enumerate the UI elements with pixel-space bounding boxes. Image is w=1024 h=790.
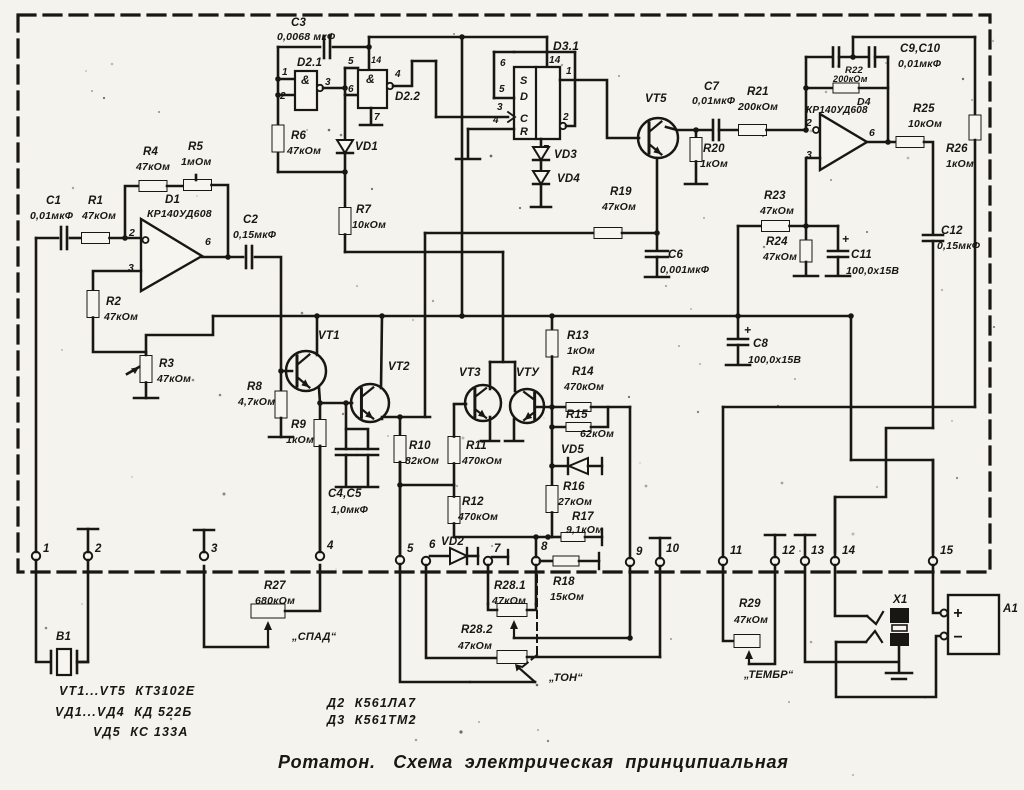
chassis bar above t13 (795, 534, 815, 537)
svg-text:R9: R9 (291, 419, 307, 431)
wire pin2 wire (566, 52, 575, 126)
wire R5 to output node (212, 185, 229, 257)
wire C12 staircase (835, 428, 933, 552)
svg-text:Д3 К561ТМ2: Д3 К561ТМ2 (326, 713, 417, 727)
wire VT4 emitter down (513, 419, 516, 440)
svg-text:1: 1 (43, 543, 50, 555)
junction node gate link (342, 85, 348, 91)
R29 wiper arrow (748, 656, 750, 664)
svg-text:47кОм: 47кОм (457, 640, 492, 652)
svg-text:VT1: VT1 (318, 330, 340, 342)
resistor R7 (339, 208, 351, 235)
op-amp D1 (141, 219, 202, 291)
svg-text:10кОм: 10кОм (352, 219, 386, 231)
wire C6 top lead (656, 233, 659, 249)
wire R19 to VT5 emitter (622, 232, 657, 235)
svg-text:1мОм: 1мОм (181, 156, 212, 168)
wire op-amp output to C2 (202, 256, 243, 259)
wire main horizontal bus (213, 315, 851, 318)
potentiometer R28.1 (497, 604, 527, 617)
svg-text:0,01мкФ: 0,01мкФ (898, 58, 942, 70)
wire terminal9 upper (629, 407, 632, 558)
R17 end bar (601, 529, 603, 545)
junction node R14 (549, 404, 555, 410)
resistor R24 (800, 240, 812, 262)
diode VD3 (533, 147, 549, 160)
svg-text:C: C (520, 113, 529, 125)
svg-text:8: 8 (541, 541, 548, 553)
junction node bus/R13 (549, 313, 555, 319)
wire R18 right lead (579, 560, 599, 563)
svg-text:R19: R19 (610, 186, 632, 198)
svg-text:47кОм: 47кОм (156, 373, 191, 385)
wire terminal2 stub (87, 529, 90, 552)
svg-text:14: 14 (371, 55, 381, 65)
wire to C7 (696, 129, 711, 132)
wire pin6-5 bracket (493, 52, 496, 98)
potentiometer R27 (251, 604, 285, 618)
C4 end bar (336, 486, 356, 489)
svg-text:47кОм: 47кОм (103, 311, 138, 323)
svg-text:2: 2 (94, 543, 102, 555)
diode VD1 (337, 140, 353, 153)
wire R input wire (468, 128, 514, 131)
svg-text:R: R (520, 126, 528, 138)
terminal 15 (929, 557, 937, 565)
transistor VT4 (510, 389, 544, 423)
wire R9 to terminal 4 (319, 446, 322, 552)
junction node D4 inverting (803, 127, 809, 133)
wire D3.1 pin14 riser (546, 37, 549, 67)
wire terminal3 stub (203, 530, 206, 552)
wire R10-R11 link (400, 484, 454, 487)
svg-text:47кОм: 47кОм (601, 201, 636, 213)
svg-text:6: 6 (869, 127, 875, 139)
junction node VD1/R6 (342, 169, 348, 175)
wire R29 wiper to t12 (749, 565, 775, 664)
wire C input riser (435, 61, 438, 117)
svg-text:R17: R17 (572, 511, 594, 523)
svg-text:6: 6 (429, 539, 436, 551)
terminal 2 (84, 552, 92, 560)
wire vertical from R19 line (424, 233, 427, 417)
wire pin3 to R2 (93, 271, 141, 291)
svg-text:C11: C11 (851, 249, 872, 261)
svg-text:&: & (301, 73, 310, 87)
wire C4 bottom lead (345, 455, 348, 486)
resistor R22 (833, 83, 859, 93)
svg-text:S: S (520, 75, 528, 87)
wire R28.1 left lead (488, 604, 497, 610)
wire C11 bottom lead (837, 257, 840, 275)
junction node C4 tap (343, 400, 349, 406)
svg-text:R4: R4 (143, 146, 159, 158)
capacitor C12 (923, 234, 943, 237)
terminal 10 (656, 558, 664, 566)
svg-text:+: + (842, 232, 849, 246)
resistor R17 (561, 533, 585, 542)
chassis bar above t12 (765, 534, 785, 537)
terminal 7 (484, 557, 492, 565)
resistor R13 (546, 330, 558, 357)
svg-text:„СПАД“: „СПАД“ (291, 631, 337, 643)
svg-text:R23: R23 (764, 190, 786, 202)
wire C6 bottom lead (656, 257, 659, 276)
R28.1 wiper arrow (513, 626, 515, 638)
svg-text:7: 7 (494, 543, 501, 555)
wire R input down (467, 129, 470, 157)
svg-text:C9,C10: C9,C10 (900, 43, 941, 55)
wire R22 right lead (859, 87, 888, 90)
svg-text:6: 6 (348, 84, 354, 95)
junction node emitter/R10 (397, 414, 403, 420)
wire R1 to op-amp pin 2 (110, 237, 143, 240)
junction node t9/wiper (627, 635, 633, 641)
svg-text:VT5: VT5 (645, 93, 667, 105)
wire R12-R16 line (454, 536, 548, 539)
wire VD2 lead (467, 555, 478, 558)
VT4 emitter bar (505, 440, 523, 443)
wire terminal10 down (659, 566, 662, 657)
wire R21 to D4 pin2 (767, 129, 807, 132)
svg-text:27кОм: 27кОм (557, 496, 592, 508)
R28.2 wiper arrow (518, 667, 535, 682)
resistor R11 (448, 437, 460, 464)
terminal 14 (831, 557, 839, 565)
svg-text:470кОм: 470кОм (457, 511, 498, 523)
C8 end bar (726, 364, 750, 367)
junction node R20 top (693, 127, 699, 133)
svg-text:R28.2: R28.2 (461, 624, 493, 636)
svg-text:D1: D1 (165, 194, 180, 206)
C6 end bar (645, 276, 669, 279)
svg-text:6: 6 (500, 58, 506, 69)
wire terminal1 wire down (36, 560, 49, 662)
svg-text:47кОм: 47кОм (759, 205, 794, 217)
wire long vertical to bus (461, 37, 464, 316)
svg-text:12: 12 (782, 545, 796, 557)
svg-text:7: 7 (374, 112, 380, 123)
wire R22 left lead (806, 87, 833, 90)
clock edge mark (508, 112, 515, 122)
wire VT1 collector to bus (316, 316, 319, 355)
svg-text:4,7кОм: 4,7кОм (237, 396, 275, 408)
A1 plus contact (941, 610, 948, 617)
VD5 end bar (601, 458, 603, 474)
svg-text:R27: R27 (264, 580, 286, 592)
svg-text:R8: R8 (247, 381, 263, 393)
capacitor C8 (728, 338, 748, 341)
ground under R24 (794, 275, 818, 278)
resistor R23 (762, 221, 790, 232)
svg-text:R28.1: R28.1 (494, 580, 526, 592)
svg-text:VД1...VД4 КД 522Б: VД1...VД4 КД 522Б (55, 705, 193, 719)
terminal 12 (771, 557, 779, 565)
svg-text:47кОм: 47кОм (286, 145, 321, 157)
jack contact lower (866, 631, 882, 642)
svg-text:2: 2 (562, 112, 569, 123)
wire D2.1 pin1 wire (278, 78, 295, 81)
wire R11 base riser (453, 405, 456, 437)
wire D2.2 pin4 wire (393, 61, 412, 86)
svg-text:200кОм: 200кОм (832, 74, 868, 84)
wire VT5 collector wire (666, 127, 694, 130)
wire feedback up leg (125, 186, 140, 238)
junction node t8 riser (533, 534, 539, 540)
wire terminal15 upper (932, 460, 935, 557)
svg-text:5: 5 (407, 543, 414, 555)
svg-text:0,01мкФ: 0,01мкФ (692, 95, 736, 107)
svg-text:D: D (520, 91, 528, 103)
wire bracket to R7 line (502, 252, 505, 362)
wire pin6-5 bracket top (494, 51, 514, 54)
wire R23 left lead (738, 225, 762, 228)
wire terminal5 down (400, 564, 535, 682)
wire input from terminal 1 to C1 (36, 237, 58, 240)
wire terminal14 down (835, 565, 867, 616)
resistor R8 (275, 391, 287, 418)
wire D4 pin3 leg (806, 158, 820, 226)
wire C12 bottom leg (932, 241, 935, 428)
wire R3 to ground (145, 383, 148, 399)
wire R17 right lead (585, 536, 602, 539)
resistor R26 (969, 115, 981, 140)
wire C4/C5 top leads (346, 403, 368, 449)
wire R28.1 right lead (527, 604, 536, 610)
wire left gate column (277, 47, 280, 126)
R27 wiper arrow (267, 627, 269, 647)
wire t15 jog (851, 460, 933, 552)
wire C7 to R21 (719, 129, 739, 132)
svg-text:R26: R26 (946, 143, 968, 155)
wire terminal5 upper (399, 462, 402, 556)
wire R11 top to VT3 base (453, 464, 456, 486)
svg-text:470кОм: 470кОм (461, 455, 502, 467)
wire R13 bottom chain (551, 357, 554, 487)
wire VD4 bottom (540, 184, 543, 206)
svg-text:C6: C6 (668, 249, 684, 261)
resistor R19 (594, 228, 622, 239)
wire B1 right lead (77, 661, 88, 664)
svg-text:R12: R12 (462, 496, 484, 508)
svg-text:R25: R25 (913, 103, 935, 115)
junction node emitter/R19 (654, 230, 660, 236)
wire C5 bottom lead (367, 455, 370, 486)
resistor R6 (272, 125, 284, 152)
ground under R8 (269, 436, 293, 439)
junction node output (885, 139, 891, 145)
wire comp to R26 (974, 37, 977, 115)
wire D2.2 pin5 wire (345, 67, 358, 70)
wire R25 to C12 (924, 142, 933, 233)
svg-text:„ТЕМБР“: „ТЕМБР“ (743, 669, 794, 681)
wire D2.2 pin7 down (370, 108, 373, 124)
svg-text:3: 3 (211, 543, 218, 555)
svg-text:3: 3 (325, 77, 331, 88)
svg-text:+: + (744, 323, 751, 337)
svg-text:R1: R1 (88, 195, 103, 207)
svg-text:R15: R15 (566, 409, 588, 421)
R18 end bar (598, 553, 600, 569)
svg-text:14: 14 (842, 545, 856, 557)
svg-text:R13: R13 (567, 330, 589, 342)
resistor R10 (394, 436, 406, 463)
wire R16 bottom (551, 513, 554, 538)
junction node VT1emitter/VT2base (317, 400, 323, 406)
wire jack sleeve (898, 646, 901, 672)
wire terminal15 down (933, 565, 940, 613)
wire pin1 wire (560, 80, 639, 138)
wire R9 top (319, 403, 322, 421)
potentiometer R29 (734, 635, 760, 648)
svg-text:1кОм: 1кОм (567, 345, 595, 357)
resistor R9 (314, 420, 326, 447)
capacitor C10 (868, 48, 871, 67)
chassis bar above t3 (194, 529, 214, 532)
svg-text:14: 14 (549, 55, 561, 66)
transistor VT5 (638, 118, 678, 158)
VT3 emitter bar (481, 440, 499, 443)
svg-text:47кОм: 47кОм (135, 161, 170, 173)
wire terminal8 right (540, 560, 552, 563)
wire VT2 collector to bus (381, 316, 382, 388)
wire VT3 collector up (489, 362, 492, 389)
svg-text:D2.1: D2.1 (297, 57, 322, 69)
logic gate D2.2 (358, 70, 387, 108)
wire feedback right leg (887, 57, 890, 142)
wire R15 right lead (591, 407, 608, 427)
wire R7 top lead (344, 172, 347, 208)
wire D2.1 out wire (323, 87, 345, 90)
svg-text:100,0х15В: 100,0х15В (748, 354, 801, 366)
svg-text:5: 5 (348, 56, 354, 67)
terminal 5 (396, 556, 404, 564)
svg-text:R7: R7 (356, 204, 372, 216)
svg-text:D2.2: D2.2 (395, 91, 420, 103)
wire C4 lead (345, 429, 348, 449)
mechanical link dashed (536, 575, 538, 655)
dashed enclosure border (18, 15, 990, 572)
wire terminal14 upper (834, 497, 837, 557)
wire R24 top lead (805, 226, 808, 240)
junction node C9/C10 mid (850, 54, 856, 60)
svg-text:62кОм: 62кОм (580, 428, 614, 440)
svg-text:0,001мкФ: 0,001мкФ (660, 264, 710, 276)
wire R26 bottom leg (974, 140, 977, 407)
wire C8 bottom lead (737, 345, 740, 364)
jack contact upper (867, 612, 883, 624)
svg-text:C2: C2 (243, 214, 259, 226)
svg-text:−: − (953, 629, 963, 646)
svg-text:47кОм: 47кОм (733, 614, 768, 626)
svg-text:1кОм: 1кОм (700, 158, 728, 170)
wire R20 bottom lead (695, 162, 698, 184)
wire R17 left lead (548, 536, 561, 539)
resistor R16 (546, 486, 558, 513)
terminal 13 (801, 557, 809, 565)
svg-text:C7: C7 (704, 81, 720, 93)
wire VT2 emitter wire (382, 417, 430, 419)
svg-text:VD3: VD3 (554, 149, 577, 161)
junction node VT1 collector (314, 313, 320, 319)
svg-text:1кОм: 1кОм (946, 158, 974, 170)
wire R7 bottom lead (344, 235, 347, 253)
R3 trimmer tap (127, 367, 139, 374)
ground under R3 (134, 397, 158, 400)
svg-text:R18: R18 (553, 576, 575, 588)
svg-text:15кОм: 15кОм (550, 591, 584, 603)
capacitor C5 (358, 448, 378, 451)
wire R4 to R5 (167, 185, 184, 188)
svg-text:C3: C3 (291, 17, 307, 29)
resistor R2 (87, 291, 99, 318)
junction node R15 (549, 424, 555, 430)
capacitor C1 (60, 227, 63, 249)
svg-text:R20: R20 (703, 143, 725, 155)
wire feedback line Q to D (514, 51, 575, 54)
capacitor C2 (245, 246, 248, 268)
svg-text:10кОм: 10кОм (908, 118, 942, 130)
wire terminal2 down (79, 560, 88, 662)
wire C9-C10 link (839, 56, 867, 59)
op-amp D4 (820, 114, 867, 170)
terminal 8 (532, 557, 540, 565)
svg-text:15: 15 (940, 545, 954, 557)
svg-text:VT2: VT2 (388, 361, 410, 373)
resistor R25 (896, 137, 924, 148)
resistor R1 (82, 233, 110, 244)
svg-text:R24: R24 (766, 236, 788, 248)
wire C11 top lead (837, 226, 840, 249)
svg-text:Д2 К561ЛА7: Д2 К561ЛА7 (326, 696, 416, 710)
wire gate link bracket (344, 68, 347, 95)
wire C2 to VT1 base (255, 257, 292, 371)
svg-text:0,01мкФ: 0,01мкФ (30, 210, 74, 222)
svg-text:КР140УД608: КР140УД608 (806, 105, 868, 116)
chassis bar above t2 (78, 528, 98, 531)
junction node R10/R11 link (397, 482, 403, 488)
terminal 3 (200, 552, 208, 560)
svg-text:Ротатон. Схема электрическа: Ротатон. Схема электрическая принципиаль… (278, 752, 789, 772)
wire R14 left lead (552, 406, 567, 409)
wire R24 bottom lead (805, 262, 808, 275)
wire top compensation line (853, 36, 975, 39)
svg-text:0,15мкФ: 0,15мкФ (233, 229, 277, 241)
wire VT3 emitter down (489, 417, 492, 440)
wire gate-to-trigger line (412, 60, 436, 63)
junction node C3/pin14 (366, 44, 372, 50)
pin2 bubble (560, 123, 566, 129)
wire feedback left leg (805, 57, 808, 130)
svg-text:200кОм: 200кОм (737, 101, 778, 113)
wire terminal9 down (629, 566, 632, 638)
wire R3 top to bus (146, 316, 213, 355)
C5 end bar (358, 486, 378, 489)
svg-text:1кОм: 1кОм (286, 434, 314, 446)
wire terminal8 up (535, 537, 538, 557)
wire R2 to R3 (93, 318, 146, 356)
resistor R5 (184, 180, 212, 191)
svg-text:B1: B1 (56, 631, 71, 643)
wire VD5 right lead (588, 465, 602, 468)
wire R20 top lead (695, 130, 698, 138)
svg-text:C4,C5: C4,C5 (328, 488, 362, 500)
wire VT4 collector up (514, 362, 517, 391)
terminal 1 (32, 552, 40, 560)
ground under R20 (685, 183, 707, 186)
svg-text:VTУ: VTУ (516, 367, 540, 379)
svg-text:&: & (366, 72, 375, 86)
